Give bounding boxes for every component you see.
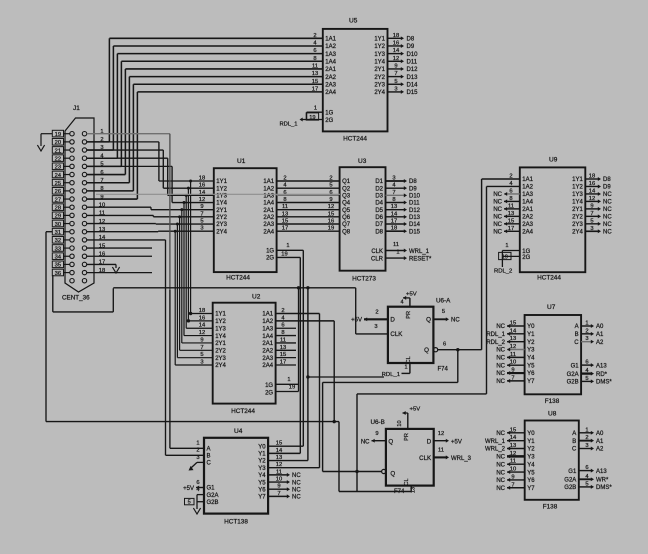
svg-text:2: 2 xyxy=(585,328,588,334)
svg-text:5: 5 xyxy=(188,500,191,506)
svg-text:2: 2 xyxy=(585,435,588,441)
svg-text:1: 1 xyxy=(585,427,588,433)
svg-text:15: 15 xyxy=(328,211,334,217)
svg-text:Q8: Q8 xyxy=(342,229,351,235)
svg-text:WRL_1: WRL_1 xyxy=(409,249,430,255)
svg-text:Y2: Y2 xyxy=(527,340,535,346)
svg-text:Q: Q xyxy=(388,438,393,445)
svg-text:1A2: 1A2 xyxy=(262,319,273,325)
svg-text:2A3: 2A3 xyxy=(325,82,336,88)
svg-text:Q3: Q3 xyxy=(342,194,351,200)
svg-text:1A2: 1A2 xyxy=(522,185,533,191)
svg-text:3: 3 xyxy=(585,336,588,342)
svg-text:36: 36 xyxy=(55,271,61,277)
svg-text:Q: Q xyxy=(390,470,395,477)
svg-text:14: 14 xyxy=(589,188,596,194)
svg-text:16: 16 xyxy=(393,40,399,46)
svg-text:CL: CL xyxy=(406,356,412,363)
svg-text:2Y2: 2Y2 xyxy=(374,75,385,81)
svg-text:A: A xyxy=(575,324,579,330)
svg-text:13: 13 xyxy=(411,487,417,493)
svg-text:D11: D11 xyxy=(407,59,418,65)
svg-text:+5V: +5V xyxy=(183,486,194,492)
svg-text:2G: 2G xyxy=(265,390,273,396)
svg-text:6: 6 xyxy=(313,48,316,54)
svg-text:18: 18 xyxy=(393,33,399,39)
svg-text:29: 29 xyxy=(55,214,61,220)
svg-text:17: 17 xyxy=(391,219,397,225)
svg-text:D12: D12 xyxy=(407,67,419,73)
svg-text:Q2: Q2 xyxy=(342,186,351,192)
svg-text:16: 16 xyxy=(328,219,334,225)
svg-text:NC: NC xyxy=(496,371,505,377)
svg-text:5: 5 xyxy=(585,376,588,382)
svg-text:18: 18 xyxy=(589,174,595,180)
svg-text:DMS*: DMS* xyxy=(596,485,612,491)
svg-text:2A1: 2A1 xyxy=(263,208,274,214)
svg-text:D14: D14 xyxy=(409,222,421,228)
svg-text:11: 11 xyxy=(312,63,318,69)
svg-text:G1: G1 xyxy=(207,486,216,492)
svg-text:F74: F74 xyxy=(438,366,449,372)
svg-text:1A4: 1A4 xyxy=(262,334,273,340)
svg-text:D7: D7 xyxy=(375,222,383,228)
svg-text:Y7: Y7 xyxy=(258,495,266,501)
svg-text:U6-B: U6-B xyxy=(371,419,385,426)
svg-text:Y5: Y5 xyxy=(527,470,535,476)
svg-text:C: C xyxy=(207,461,212,467)
svg-text:14: 14 xyxy=(510,435,517,441)
svg-text:C: C xyxy=(572,447,577,453)
svg-text:2Y2: 2Y2 xyxy=(572,215,583,221)
svg-text:Y1: Y1 xyxy=(527,439,535,445)
svg-text:3: 3 xyxy=(590,226,593,232)
svg-text:6: 6 xyxy=(443,341,446,347)
svg-text:6: 6 xyxy=(585,465,588,471)
svg-text:Y6: Y6 xyxy=(258,487,266,493)
svg-text:33: 33 xyxy=(55,246,61,252)
svg-text:HCT244: HCT244 xyxy=(343,136,367,143)
svg-text:2Y4: 2Y4 xyxy=(572,229,583,235)
svg-text:NC: NC xyxy=(603,192,612,198)
svg-text:NC: NC xyxy=(496,363,505,369)
svg-text:HCT244: HCT244 xyxy=(231,408,255,415)
svg-text:Y6: Y6 xyxy=(527,478,535,484)
svg-text:2A4: 2A4 xyxy=(263,229,274,235)
svg-text:U4: U4 xyxy=(234,428,243,435)
svg-text:5: 5 xyxy=(590,218,593,224)
svg-text:D13: D13 xyxy=(409,215,421,221)
svg-text:12: 12 xyxy=(510,451,516,457)
svg-text:HCT244: HCT244 xyxy=(537,275,561,282)
svg-text:2G: 2G xyxy=(266,256,274,262)
svg-text:6: 6 xyxy=(283,190,286,196)
svg-text:20: 20 xyxy=(55,140,61,146)
svg-text:D1: D1 xyxy=(375,179,383,185)
svg-text:PR: PR xyxy=(404,433,410,441)
svg-text:7: 7 xyxy=(394,71,397,77)
svg-text:2Y4: 2Y4 xyxy=(216,229,227,235)
svg-text:17: 17 xyxy=(312,86,318,92)
svg-text:1Y3: 1Y3 xyxy=(374,52,385,58)
svg-text:NC: NC xyxy=(603,222,612,228)
svg-text:Q4: Q4 xyxy=(342,201,351,207)
svg-text:+5V: +5V xyxy=(406,291,417,297)
svg-text:1G: 1G xyxy=(265,383,273,389)
svg-text:2Y3: 2Y3 xyxy=(572,222,583,228)
svg-text:NC: NC xyxy=(292,473,301,479)
svg-text:CENT_36: CENT_36 xyxy=(62,295,90,302)
svg-text:D: D xyxy=(390,317,395,324)
svg-text:1A3: 1A3 xyxy=(325,52,336,58)
svg-text:Q1: Q1 xyxy=(342,179,351,185)
svg-text:2Y4: 2Y4 xyxy=(374,90,385,96)
svg-text:Y1: Y1 xyxy=(527,332,535,338)
svg-text:D14: D14 xyxy=(407,82,419,88)
svg-text:D8: D8 xyxy=(407,37,415,43)
svg-text:D5: D5 xyxy=(375,208,383,214)
svg-text:1: 1 xyxy=(287,377,290,383)
svg-text:13: 13 xyxy=(510,443,516,449)
svg-text:16: 16 xyxy=(589,181,595,187)
svg-text:1: 1 xyxy=(505,243,508,249)
svg-text:Y0: Y0 xyxy=(527,431,535,437)
svg-text:U7: U7 xyxy=(547,304,556,311)
svg-text:G2A: G2A xyxy=(564,478,576,484)
svg-text:CLK: CLK xyxy=(390,331,403,338)
svg-text:1Y1: 1Y1 xyxy=(374,37,385,43)
svg-text:RESET*: RESET* xyxy=(409,257,432,263)
svg-text:D13: D13 xyxy=(407,75,419,81)
svg-text:NC: NC xyxy=(292,480,301,486)
svg-text:19: 19 xyxy=(328,226,334,232)
svg-text:2Y3: 2Y3 xyxy=(374,82,385,88)
svg-text:2A1: 2A1 xyxy=(522,207,533,213)
svg-text:2A2: 2A2 xyxy=(262,349,273,355)
svg-text:NC: NC xyxy=(496,462,505,468)
svg-text:1Y2: 1Y2 xyxy=(374,44,385,50)
svg-text:D15: D15 xyxy=(409,229,421,235)
svg-text:2Y3: 2Y3 xyxy=(216,222,227,228)
svg-text:B: B xyxy=(572,439,576,445)
svg-text:Y2: Y2 xyxy=(527,447,535,453)
svg-text:NC: NC xyxy=(292,495,301,501)
svg-text:Q: Q xyxy=(426,317,431,324)
svg-text:D9: D9 xyxy=(409,186,417,192)
svg-text:11: 11 xyxy=(510,459,516,465)
svg-text:1Y2: 1Y2 xyxy=(215,319,226,325)
svg-text:24: 24 xyxy=(55,173,62,179)
svg-text:2Y1: 2Y1 xyxy=(374,67,385,73)
svg-text:9: 9 xyxy=(394,63,397,69)
svg-text:1A1: 1A1 xyxy=(522,177,533,183)
svg-text:7: 7 xyxy=(511,482,514,488)
svg-text:D10: D10 xyxy=(409,194,421,200)
svg-text:G2B: G2B xyxy=(567,380,579,386)
svg-text:2Y2: 2Y2 xyxy=(216,215,227,221)
svg-text:10: 10 xyxy=(510,467,516,473)
svg-text:2A4: 2A4 xyxy=(325,90,336,96)
svg-text:10: 10 xyxy=(510,360,516,366)
svg-text:13: 13 xyxy=(282,211,288,217)
svg-text:1Y1: 1Y1 xyxy=(572,177,583,183)
svg-text:7: 7 xyxy=(392,190,395,196)
svg-text:1Y3: 1Y3 xyxy=(572,192,583,198)
svg-text:1A2: 1A2 xyxy=(325,44,336,50)
svg-text:1Y1: 1Y1 xyxy=(216,179,227,185)
svg-text:32: 32 xyxy=(55,238,61,244)
svg-text:5: 5 xyxy=(585,481,588,487)
svg-text:11: 11 xyxy=(510,352,516,358)
svg-text:3: 3 xyxy=(392,176,395,182)
svg-text:9: 9 xyxy=(511,474,514,480)
svg-text:D10: D10 xyxy=(407,52,419,58)
svg-text:HCT244: HCT244 xyxy=(226,275,250,282)
svg-text:C: C xyxy=(574,340,579,346)
svg-text:Y1: Y1 xyxy=(258,452,266,458)
svg-text:2: 2 xyxy=(375,309,378,315)
svg-text:2A1: 2A1 xyxy=(325,67,336,73)
svg-text:Y2: Y2 xyxy=(258,459,266,465)
svg-text:Q7: Q7 xyxy=(342,222,351,228)
svg-text:12: 12 xyxy=(438,431,444,437)
svg-text:J1: J1 xyxy=(73,105,80,112)
svg-text:RD*: RD* xyxy=(596,372,608,378)
svg-text:B: B xyxy=(575,332,579,338)
svg-text:2G: 2G xyxy=(325,118,333,124)
svg-text:CLK: CLK xyxy=(419,455,432,462)
svg-text:Y4: Y4 xyxy=(527,356,535,362)
svg-text:Y4: Y4 xyxy=(258,473,266,479)
svg-text:3: 3 xyxy=(374,324,377,330)
svg-text:G2B: G2B xyxy=(564,485,576,491)
svg-text:25: 25 xyxy=(55,181,61,187)
svg-text:1Y4: 1Y4 xyxy=(215,334,226,340)
svg-text:D8: D8 xyxy=(409,179,417,185)
svg-text:U8: U8 xyxy=(548,411,557,418)
svg-text:A2: A2 xyxy=(596,340,604,346)
svg-text:G2A: G2A xyxy=(567,372,579,378)
svg-text:11: 11 xyxy=(438,448,444,454)
svg-text:RDL_1: RDL_1 xyxy=(486,332,505,338)
svg-text:D8: D8 xyxy=(603,177,611,183)
svg-text:2: 2 xyxy=(283,176,286,182)
svg-text:27: 27 xyxy=(55,197,61,203)
svg-text:12: 12 xyxy=(589,196,595,202)
svg-text:A1: A1 xyxy=(596,439,604,445)
svg-text:+5V: +5V xyxy=(410,407,421,413)
svg-text:28: 28 xyxy=(55,206,61,212)
svg-text:1Y4: 1Y4 xyxy=(216,201,227,207)
svg-text:13: 13 xyxy=(391,204,397,210)
svg-text:2A4: 2A4 xyxy=(522,229,533,235)
svg-text:1G: 1G xyxy=(266,249,274,255)
svg-text:1G: 1G xyxy=(325,110,333,116)
svg-text:A1: A1 xyxy=(596,332,604,338)
svg-text:D6: D6 xyxy=(375,215,383,221)
svg-text:D9: D9 xyxy=(407,44,415,50)
svg-text:D8: D8 xyxy=(375,229,383,235)
svg-text:NC: NC xyxy=(361,439,370,445)
svg-text:8: 8 xyxy=(283,197,286,203)
svg-text:NC: NC xyxy=(496,478,505,484)
svg-text:1Y3: 1Y3 xyxy=(215,326,226,332)
svg-text:2: 2 xyxy=(329,176,332,182)
svg-text:7: 7 xyxy=(511,375,514,381)
svg-text:Y5: Y5 xyxy=(258,480,266,486)
svg-text:13: 13 xyxy=(510,336,516,342)
svg-text:6: 6 xyxy=(329,190,332,196)
svg-text:CL: CL xyxy=(404,478,410,485)
svg-text:1Y4: 1Y4 xyxy=(374,59,385,65)
svg-text:A: A xyxy=(207,447,211,453)
svg-text:15: 15 xyxy=(312,79,318,85)
svg-text:15: 15 xyxy=(510,427,516,433)
svg-text:1: 1 xyxy=(286,243,289,249)
svg-text:18: 18 xyxy=(391,226,397,232)
svg-text:6: 6 xyxy=(585,360,588,366)
svg-text:G1: G1 xyxy=(568,469,577,475)
svg-text:G1: G1 xyxy=(571,363,580,369)
svg-text:2A1: 2A1 xyxy=(262,341,273,347)
svg-text:G2B: G2B xyxy=(207,500,219,506)
svg-text:4: 4 xyxy=(400,299,403,305)
svg-text:12: 12 xyxy=(393,56,399,62)
svg-text:NC: NC xyxy=(493,200,502,206)
svg-text:Q5: Q5 xyxy=(342,208,351,214)
svg-text:31: 31 xyxy=(55,230,61,236)
svg-text:NC: NC xyxy=(496,379,505,385)
svg-text:NC: NC xyxy=(603,215,612,221)
svg-text:2G: 2G xyxy=(522,255,530,261)
svg-text:23: 23 xyxy=(55,165,61,171)
svg-text:2: 2 xyxy=(313,33,316,39)
svg-text:U2: U2 xyxy=(252,293,261,300)
svg-text:A13: A13 xyxy=(596,363,607,369)
svg-text:A0: A0 xyxy=(596,431,604,437)
svg-text:26: 26 xyxy=(55,189,61,195)
svg-text:15: 15 xyxy=(282,219,288,225)
svg-text:CLK: CLK xyxy=(371,249,383,255)
svg-text:22: 22 xyxy=(55,157,61,163)
svg-text:NC: NC xyxy=(603,229,612,235)
svg-text:2Y4: 2Y4 xyxy=(215,363,226,369)
svg-text:NC: NC xyxy=(496,324,505,330)
svg-text:1: 1 xyxy=(585,321,588,327)
svg-text:Y7: Y7 xyxy=(527,379,535,385)
svg-text:9: 9 xyxy=(511,368,514,374)
svg-text:8: 8 xyxy=(392,197,395,203)
svg-text:DMS*: DMS* xyxy=(596,380,612,386)
svg-text:NC: NC xyxy=(603,207,612,213)
svg-text:D11: D11 xyxy=(409,201,420,207)
svg-text:Y3: Y3 xyxy=(527,455,535,461)
svg-text:19: 19 xyxy=(289,385,295,391)
svg-text:5: 5 xyxy=(394,79,397,85)
svg-text:21: 21 xyxy=(55,148,61,154)
svg-text:9: 9 xyxy=(375,431,378,437)
svg-text:PR: PR xyxy=(406,311,412,319)
svg-text:WRL_1: WRL_1 xyxy=(485,439,506,445)
svg-text:Y0: Y0 xyxy=(527,324,535,330)
svg-text:+5V: +5V xyxy=(351,318,362,324)
svg-text:NC: NC xyxy=(496,470,505,476)
svg-text:13: 13 xyxy=(312,71,318,77)
svg-text:9: 9 xyxy=(329,197,332,203)
svg-text:WRL_3: WRL_3 xyxy=(451,456,472,462)
svg-text:19: 19 xyxy=(309,115,315,121)
svg-text:3: 3 xyxy=(585,443,588,449)
svg-text:1A2: 1A2 xyxy=(263,186,274,192)
svg-text:2Y2: 2Y2 xyxy=(215,349,226,355)
svg-text:14: 14 xyxy=(391,211,398,217)
svg-text:1Y4: 1Y4 xyxy=(572,200,583,206)
svg-text:12: 12 xyxy=(328,204,334,210)
svg-text:Y4: Y4 xyxy=(527,462,535,468)
svg-text:RDL_1: RDL_1 xyxy=(279,122,297,128)
svg-text:NC: NC xyxy=(496,486,505,492)
svg-text:5: 5 xyxy=(329,183,332,189)
svg-text:2A2: 2A2 xyxy=(263,215,274,221)
svg-text:Q6: Q6 xyxy=(342,215,351,221)
svg-text:NC: NC xyxy=(292,487,301,493)
svg-text:HCT138: HCT138 xyxy=(224,518,248,525)
svg-text:Y6: Y6 xyxy=(527,371,535,377)
svg-text:2A3: 2A3 xyxy=(263,222,274,228)
svg-text:1Y2: 1Y2 xyxy=(216,186,227,192)
svg-text:1Y1: 1Y1 xyxy=(215,312,226,318)
svg-text:RDL_2: RDL_2 xyxy=(494,268,512,274)
svg-text:2A3: 2A3 xyxy=(522,222,533,228)
svg-text:17: 17 xyxy=(282,226,288,232)
svg-text:NC: NC xyxy=(493,207,502,213)
svg-text:35: 35 xyxy=(55,263,61,269)
svg-text:D9: D9 xyxy=(603,185,611,191)
svg-text:Y3: Y3 xyxy=(258,466,266,472)
svg-text:2A3: 2A3 xyxy=(262,356,273,362)
svg-text:CLR: CLR xyxy=(371,257,384,263)
svg-text:NC: NC xyxy=(493,192,502,198)
svg-text:NC: NC xyxy=(603,200,612,206)
svg-text:B: B xyxy=(207,454,211,460)
svg-text:U1: U1 xyxy=(237,158,246,165)
svg-text:30: 30 xyxy=(55,222,61,228)
svg-text:7: 7 xyxy=(590,211,593,217)
svg-text:U9: U9 xyxy=(549,157,558,164)
svg-text:Q: Q xyxy=(424,347,429,354)
svg-text:2Y1: 2Y1 xyxy=(572,207,583,213)
svg-text:1A3: 1A3 xyxy=(262,326,273,332)
svg-text:D4: D4 xyxy=(375,201,383,207)
svg-text:Y7: Y7 xyxy=(527,486,535,492)
svg-text:NC: NC xyxy=(493,229,502,235)
svg-text:1A4: 1A4 xyxy=(263,201,274,207)
svg-text:3: 3 xyxy=(394,86,397,92)
svg-text:Y5: Y5 xyxy=(527,363,535,369)
svg-text:U3: U3 xyxy=(358,158,367,165)
svg-text:11: 11 xyxy=(282,204,288,210)
svg-text:2Y3: 2Y3 xyxy=(215,356,226,362)
svg-text:A2: A2 xyxy=(596,447,604,453)
svg-text:1A4: 1A4 xyxy=(325,59,336,65)
svg-text:D: D xyxy=(427,438,432,445)
svg-text:5: 5 xyxy=(442,309,445,315)
svg-text:WRL_2: WRL_2 xyxy=(485,447,506,453)
svg-text:NC: NC xyxy=(493,215,502,221)
svg-text:Y3: Y3 xyxy=(527,348,535,354)
svg-text:2Y1: 2Y1 xyxy=(216,208,227,214)
svg-text:NC: NC xyxy=(493,222,502,228)
